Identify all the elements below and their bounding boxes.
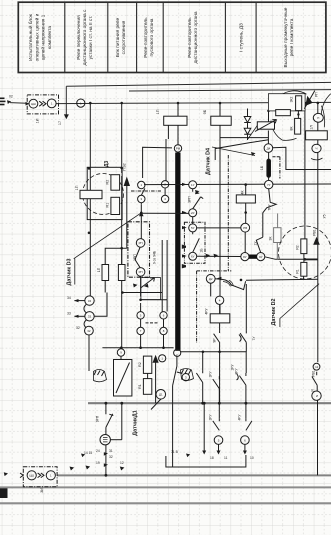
- svg-text:2РУ: 2РУ: [235, 368, 239, 375]
- svg-text:1П: 1П: [75, 185, 79, 190]
- svg-text:14 15: 14 15: [84, 451, 92, 455]
- svg-text:34: 34: [67, 296, 71, 300]
- svg-text:71 В: 71 В: [171, 450, 179, 454]
- svg-text:9Р: 9Р: [213, 338, 217, 343]
- svg-text:R2: R2: [138, 362, 142, 367]
- svg-text:12: 12: [315, 365, 319, 369]
- svg-text:РМ: РМ: [176, 147, 181, 151]
- svg-text:ДатчикД1: ДатчикД1: [133, 410, 139, 435]
- svg-text:34: 34: [88, 299, 92, 303]
- svg-text:РП: РП: [139, 241, 143, 245]
- svg-text:33: 33: [88, 315, 92, 319]
- svg-text:ЦШ: ЦШ: [29, 474, 34, 478]
- svg-text:3РП: 3РП: [188, 196, 192, 203]
- svg-text:12: 12: [120, 461, 124, 465]
- svg-text:R1: R1: [106, 203, 110, 208]
- svg-text:31: 31: [109, 449, 113, 453]
- svg-text:1П: 1П: [156, 109, 160, 114]
- svg-text:32: 32: [76, 326, 80, 330]
- svg-text:4РУ: 4РУ: [205, 308, 209, 315]
- svg-text:РП: РП: [315, 92, 319, 97]
- svg-text:9Б: 9Б: [203, 109, 207, 114]
- svg-text:9 св 94Б: 9 св 94Б: [152, 250, 156, 264]
- svg-text:Датчик D4: Датчик D4: [206, 148, 212, 175]
- svg-text:3К2: 3К2: [290, 97, 294, 103]
- svg-text:2У: 2У: [191, 211, 195, 215]
- svg-text:РП: РП: [139, 270, 143, 274]
- svg-text:24: 24: [96, 449, 100, 453]
- svg-text:РВ1: РВ1: [312, 370, 316, 377]
- svg-text:6У: 6У: [191, 255, 195, 259]
- svg-text:11: 11: [224, 456, 228, 460]
- svg-text:1Л: 1Л: [310, 125, 314, 129]
- svg-text:18: 18: [210, 456, 214, 460]
- svg-text:9РП: 9РП: [96, 415, 100, 422]
- svg-text:Д1: Д1: [159, 393, 163, 397]
- svg-text:33: 33: [67, 312, 71, 316]
- svg-text:R2: R2: [296, 245, 300, 249]
- svg-text:РВ1: РВ1: [313, 229, 317, 236]
- svg-text:3И: 3И: [40, 488, 44, 493]
- svg-text:1И: 1И: [36, 118, 40, 123]
- svg-text:1П: 1П: [97, 267, 101, 272]
- svg-text:8У: 8У: [243, 255, 247, 259]
- svg-text:17: 17: [58, 121, 62, 125]
- svg-text:Ч: Ч: [316, 147, 318, 151]
- svg-text:7У: 7У: [267, 183, 271, 187]
- svg-text:Д4: Д4: [267, 146, 271, 150]
- svg-text:У5: У5: [323, 214, 327, 218]
- svg-text:4К: 4К: [241, 191, 245, 195]
- svg-text:1РУ: 1РУ: [231, 364, 235, 371]
- svg-text:R2: R2: [106, 180, 110, 185]
- svg-text:1РУ: 1РУ: [209, 414, 213, 421]
- svg-text:Д3: Д3: [104, 161, 110, 168]
- svg-text:1РП: 1РП: [133, 254, 137, 261]
- svg-text:5У: 5У: [191, 226, 195, 230]
- svg-text:1РУ: 1РУ: [209, 371, 213, 378]
- svg-text:РВ: РВ: [243, 226, 247, 230]
- svg-text:10: 10: [250, 456, 254, 460]
- svg-text:ПЭ2: ПЭ2: [123, 163, 127, 171]
- svg-text:32: 32: [109, 455, 113, 459]
- svg-text:3К: 3К: [269, 237, 273, 241]
- svg-text:П: П: [317, 116, 319, 120]
- svg-text:Датчик D3: Датчик D3: [67, 258, 73, 285]
- svg-text:7РУ: 7РУ: [268, 204, 272, 211]
- svg-text:8К: 8К: [290, 127, 294, 131]
- svg-text:Д2: Д2: [209, 277, 213, 281]
- svg-text:И: И: [316, 394, 318, 398]
- svg-text:02: 02: [9, 95, 13, 99]
- svg-text:32: 32: [87, 329, 91, 333]
- svg-text:I ступень, ДЗ: I ступень, ДЗ: [238, 23, 244, 52]
- svg-text:Датчик D2: Датчик D2: [271, 298, 277, 325]
- svg-text:1У: 1У: [191, 183, 195, 187]
- svg-text:R1: R1: [138, 384, 142, 389]
- svg-text:Реле переключениядистанционног: Реле переключениядистанционного органа с…: [76, 9, 94, 65]
- svg-text:ЦШ: ЦШ: [31, 102, 36, 106]
- svg-text:19: 19: [96, 461, 100, 465]
- svg-text:4РУ: 4РУ: [238, 414, 242, 421]
- svg-text:9У: 9У: [259, 255, 263, 259]
- svg-text:R1: R1: [296, 269, 300, 273]
